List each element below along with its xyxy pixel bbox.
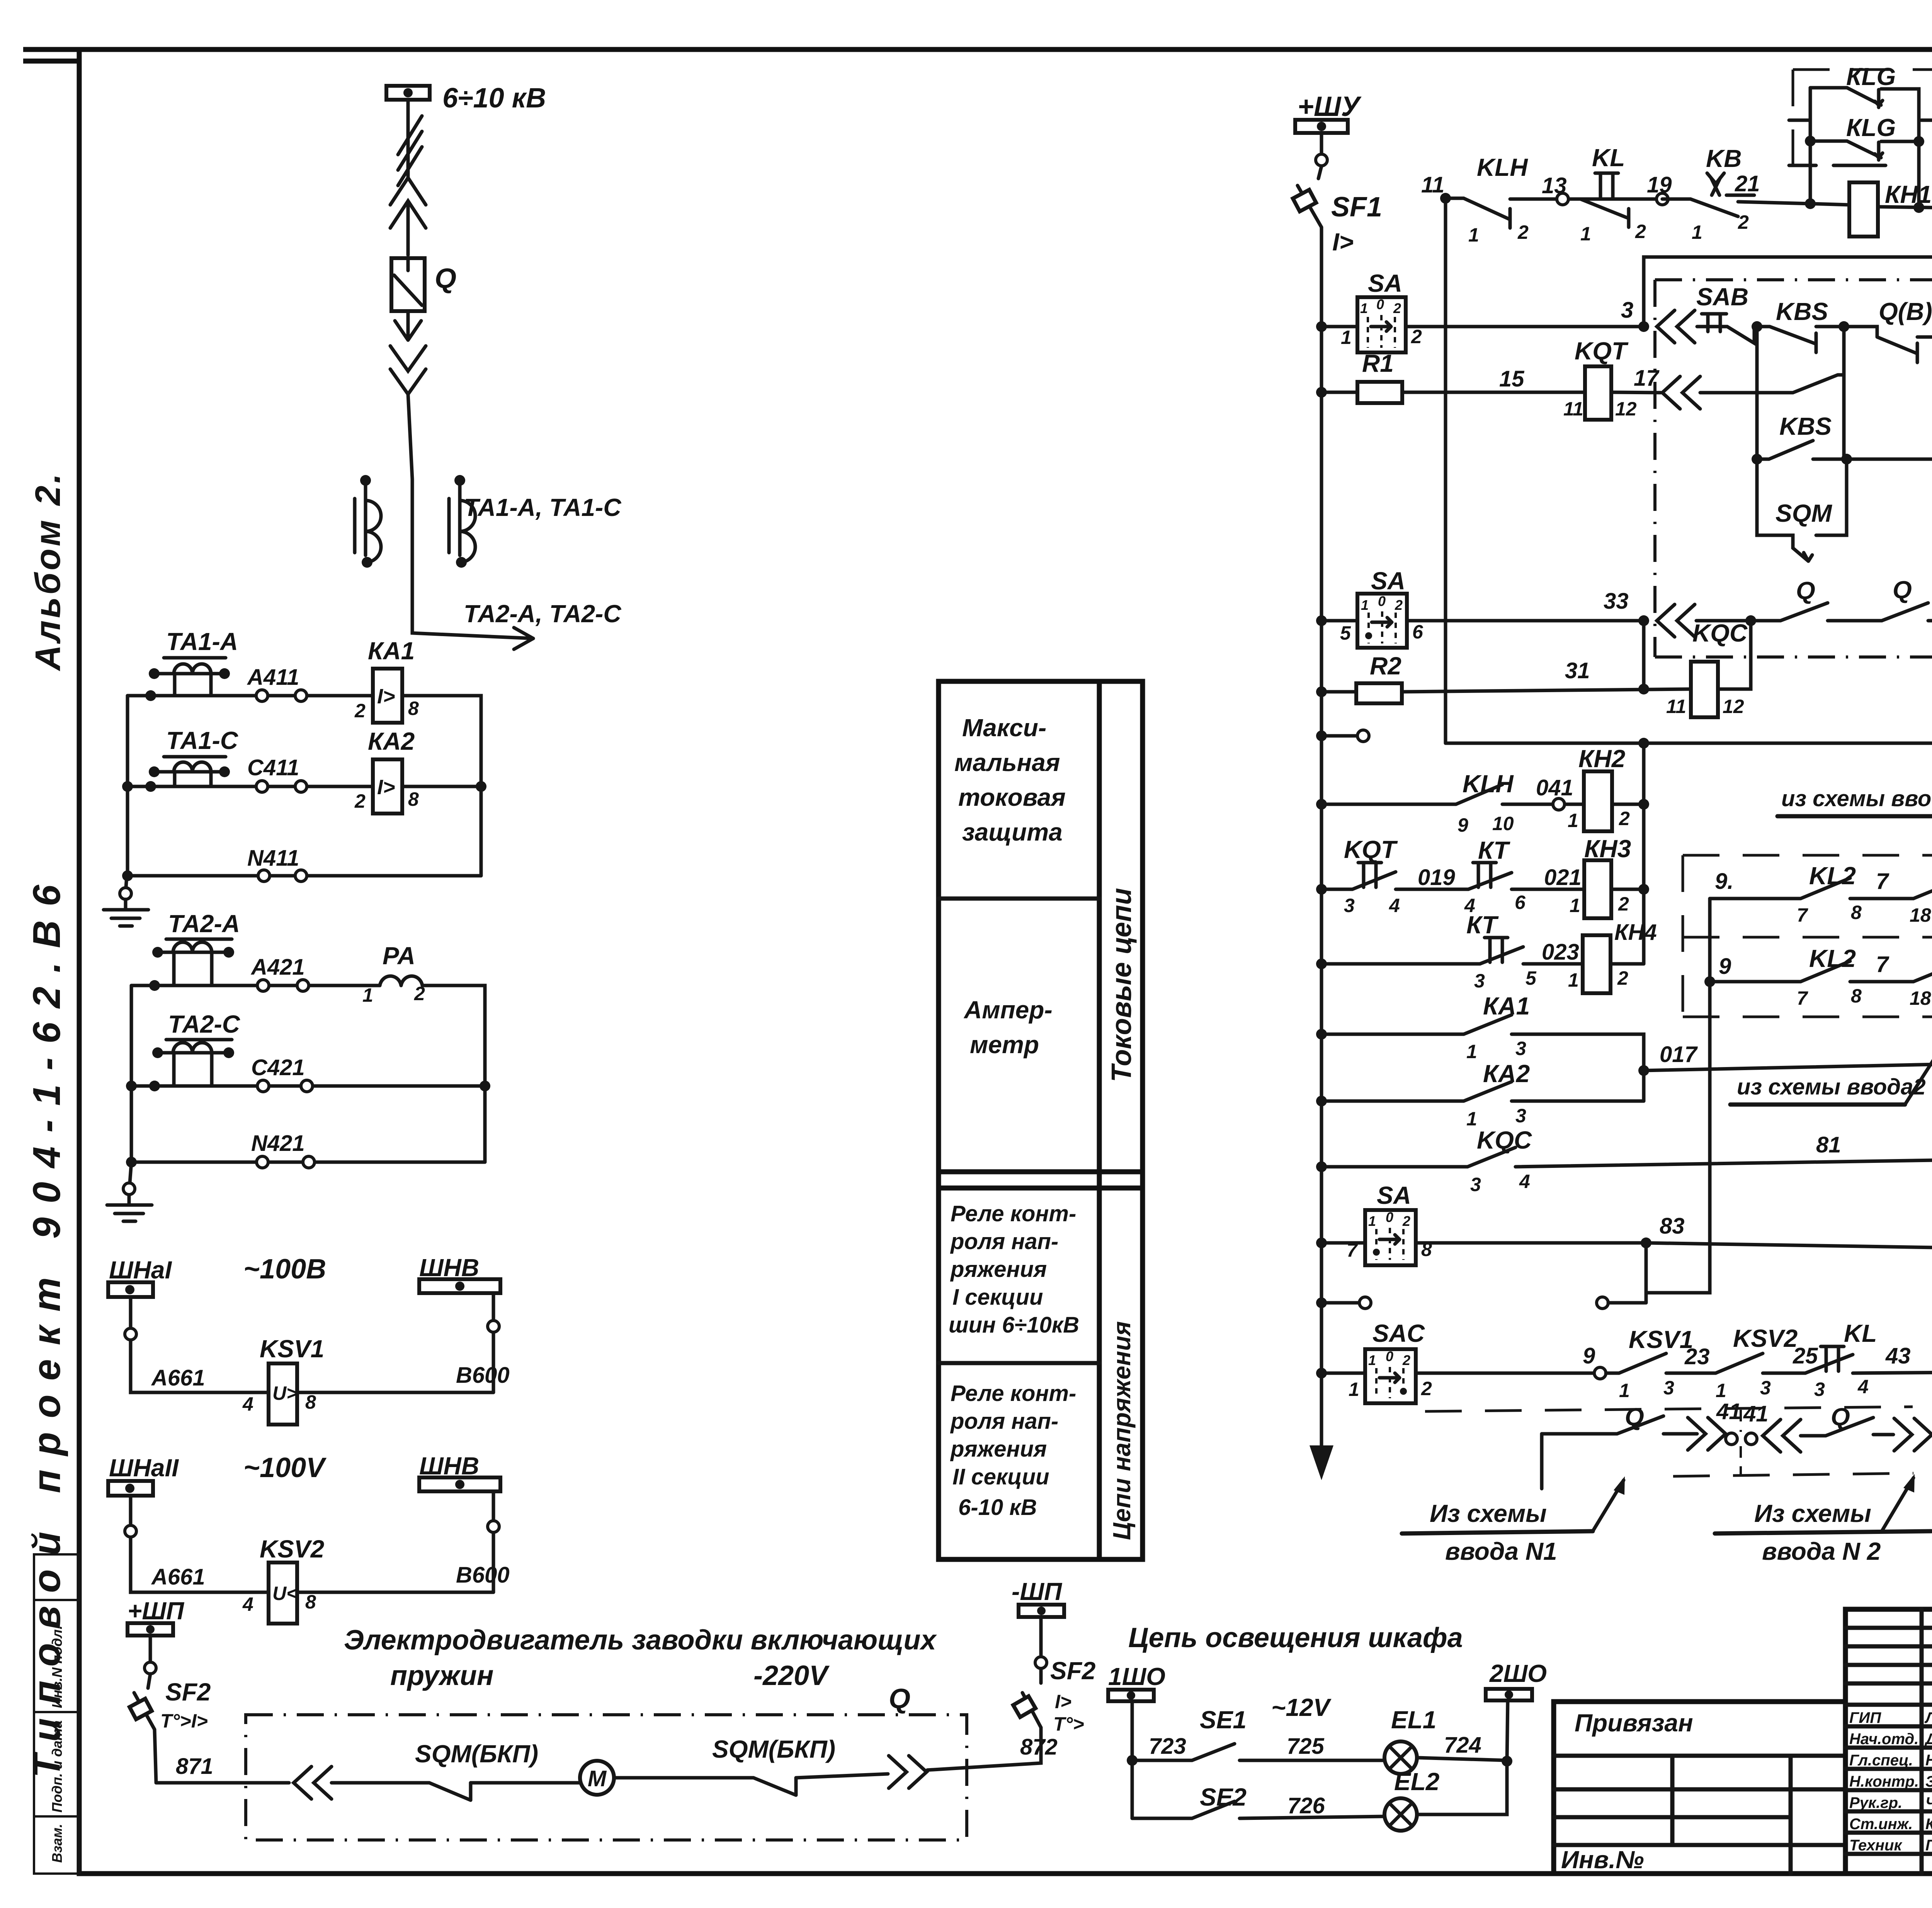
svg-text:SA: SA [1377, 1181, 1411, 1209]
svg-text:KSV2: KSV2 [1733, 1324, 1798, 1352]
coil KQT [1563, 337, 1661, 420]
svg-text:11: 11 [1666, 696, 1686, 717]
svg-text:6-10 кВ: 6-10 кВ [958, 1495, 1037, 1520]
text iz shemy vvoda N1 bottom [1402, 1476, 1625, 1565]
KH return vertical [1642, 743, 1646, 964]
contact SQM(BKP) 2 [712, 1735, 888, 1795]
svg-text:SA: SA [1371, 567, 1405, 595]
svg-text:0: 0 [1386, 1348, 1393, 1364]
svg-text:KSV1: KSV1 [1629, 1326, 1693, 1353]
svg-text:7: 7 [1797, 987, 1808, 1009]
svg-text:Взам.: Взам. [49, 1824, 65, 1863]
svg-text:Гл.спец.: Гл.спец. [1849, 1752, 1913, 1769]
svg-text:Золотарева: Золотарева [1925, 1773, 1932, 1790]
svg-text:ТА1-А, ТА1-С: ТА1-А, ТА1-С [464, 494, 621, 521]
svg-text:Цепи напряжения: Цепи напряжения [1108, 1321, 1136, 1540]
83 node drop to vvod bracket [1597, 982, 1710, 1309]
dash-dot breaker Q boundary [1655, 246, 1932, 657]
rung KA2 [1316, 1060, 1644, 1130]
svg-text:8: 8 [305, 1391, 316, 1413]
cable mark [398, 100, 422, 186]
svg-text:KQC: KQC [1692, 619, 1748, 647]
svg-text:Q: Q [1893, 576, 1912, 604]
wire C411 [128, 755, 373, 792]
svg-text:8: 8 [1851, 902, 1862, 923]
svg-text:2: 2 [1619, 808, 1630, 829]
bus +ShP [128, 1597, 185, 1674]
svg-text:9: 9 [1719, 954, 1731, 979]
svg-text:SF2: SF2 [165, 1678, 211, 1706]
svg-text:Чапны: Чапны [1925, 1794, 1932, 1811]
+ShU bottom arrow [1310, 1445, 1333, 1480]
relay KH1 [1644, 180, 1932, 327]
svg-text:Привязан: Привязан [1575, 1709, 1693, 1737]
rung a: SA switch 1-2 [1316, 269, 1644, 352]
svg-text:КТ: КТ [1478, 836, 1510, 864]
svg-text:10: 10 [1492, 813, 1514, 834]
svg-text:1: 1 [1360, 300, 1368, 316]
svg-text:8: 8 [1851, 985, 1862, 1007]
svg-text:0: 0 [1378, 593, 1386, 609]
svg-text:ШНаI: ШНаI [109, 1256, 172, 1284]
arrows >> avr [1688, 1418, 1726, 1450]
svg-text:токовая: токовая [958, 783, 1066, 811]
arrows >> motor [889, 1756, 927, 1788]
svg-text:Техник: Техник [1849, 1837, 1902, 1854]
svg-text:KBS: KBS [1776, 298, 1828, 325]
svg-text:83: 83 [1660, 1214, 1685, 1239]
svg-text:3: 3 [1515, 1105, 1526, 1127]
single-line CT TA1 [355, 475, 621, 568]
relay KA1 [354, 637, 481, 876]
svg-text:41: 41 [1743, 1401, 1769, 1426]
svg-text:из схемы ввода N1: из схемы ввода N1 [1781, 786, 1932, 811]
bus 6-10 kV [386, 83, 546, 114]
wire B600 up to ShNV2 [456, 1491, 510, 1592]
svg-text:ТА1-А: ТА1-А [166, 628, 238, 655]
bus +ShU [1295, 91, 1362, 166]
contact SQM 2 [1700, 327, 1844, 459]
svg-text:ТА2-А: ТА2-А [168, 910, 240, 938]
svg-text:5: 5 [1526, 967, 1537, 989]
svg-text:KSV1: KSV1 [260, 1335, 324, 1363]
svg-text:М: М [588, 1766, 607, 1791]
svg-text:КН4: КН4 [1614, 920, 1657, 945]
svg-text:SQM: SQM [1776, 499, 1832, 527]
svg-text:ввода N 2: ввода N 2 [1762, 1537, 1881, 1565]
svg-text:3: 3 [1663, 1377, 1674, 1399]
svg-text:3: 3 [1470, 1174, 1481, 1195]
svg-text:КLG: КLG [1846, 63, 1896, 90]
arrows << rung a [1657, 310, 1695, 343]
svg-text:021: 021 [1544, 865, 1582, 890]
svg-text:EL2: EL2 [1394, 1768, 1439, 1796]
svg-text:EL1: EL1 [1391, 1706, 1436, 1734]
wire 017 to KT coil [1638, 1042, 1932, 1076]
svg-text:KQC: KQC [1477, 1126, 1532, 1154]
svg-text:12: 12 [1723, 696, 1744, 717]
breaker SF2 [129, 1674, 211, 1783]
wire 21 [1726, 171, 1760, 233]
svg-text:21: 21 [1735, 171, 1760, 196]
svg-text:из схемы ввода2: из схемы ввода2 [1737, 1074, 1926, 1100]
svg-text:1: 1 [1349, 1379, 1359, 1400]
svg-text:2: 2 [1517, 221, 1529, 243]
branch SE2 [1132, 1760, 1384, 1818]
contact Q(B) [1844, 298, 1932, 363]
svg-text:33: 33 [1604, 589, 1629, 614]
svg-text:Q: Q [435, 263, 456, 294]
svg-text:I>: I> [1055, 1691, 1071, 1712]
19 terminal [1647, 172, 1672, 205]
ground 2 [107, 1162, 152, 1221]
svg-text:0: 0 [1386, 1209, 1393, 1225]
svg-text:I секции: I секции [952, 1285, 1043, 1310]
ground 1 [104, 876, 148, 926]
breaker Q [391, 258, 456, 311]
node 11 top [1421, 172, 1451, 743]
svg-text:KL2: KL2 [1809, 862, 1856, 890]
svg-text:SA: SA [1368, 269, 1402, 297]
svg-text:Токовые цепи: Токовые цепи [1106, 888, 1137, 1083]
svg-text:4: 4 [242, 1393, 253, 1415]
svg-text:KL: KL [1844, 1319, 1877, 1347]
svg-text:3: 3 [1760, 1377, 1771, 1399]
chevrons up [390, 178, 426, 255]
svg-text:KB: KB [1706, 145, 1742, 172]
svg-text:KQT: KQT [1575, 337, 1629, 365]
svg-text:роля нап-: роля нап- [950, 1229, 1058, 1254]
svg-text:~100В: ~100В [243, 1254, 326, 1285]
svg-text:12: 12 [1615, 398, 1637, 420]
svg-text:1: 1 [1368, 1352, 1376, 1368]
arrows << motor [294, 1767, 332, 1799]
KLG dashed box [1789, 70, 1932, 172]
rung SA3 - 83 - KQ2 coil [1316, 1181, 1646, 1265]
wire A421 [131, 955, 380, 991]
svg-text:В600: В600 [456, 1363, 510, 1388]
13 terminal [1542, 173, 1568, 205]
svg-text:Из схемы: Из схемы [1430, 1500, 1547, 1527]
svg-text:ТА2-А, ТА2-С: ТА2-А, ТА2-С [464, 600, 621, 628]
coil KQC [1666, 615, 1756, 717]
svg-text:1: 1 [1466, 1108, 1477, 1130]
svg-text:I>: I> [377, 685, 395, 708]
rung KA1 [1316, 992, 1644, 1101]
rung A: KB contact [1662, 145, 1810, 243]
svg-text:ввода N1: ввода N1 [1445, 1537, 1557, 1565]
svg-text:Электродвигатель заводки вкл: Электродвигатель заводки включающих [344, 1625, 937, 1656]
SQM callout bubble [1757, 459, 1847, 561]
svg-text:Т°>: Т°> [1053, 1713, 1084, 1735]
svg-text:3: 3 [1474, 970, 1485, 992]
svg-text:А661: А661 [151, 1365, 205, 1391]
margin stamp boxes [34, 1554, 79, 1874]
svg-text:ГИП: ГИП [1849, 1709, 1881, 1726]
rung KQT2-019-KT-021-KH3 [1316, 836, 1468, 916]
svg-text:Q(В): Q(В) [1879, 298, 1932, 325]
svg-text:81: 81 [1816, 1132, 1841, 1157]
svg-text:9: 9 [1458, 814, 1468, 836]
svg-text:ТА1-С: ТА1-С [166, 727, 238, 754]
rung R1-KQT: resistor R1 [1316, 349, 1585, 403]
left bus TA2 group [126, 985, 137, 1162]
node 83 [1641, 1214, 1932, 1249]
rung A: KL contact [1580, 144, 1646, 245]
wire 871 [156, 1754, 289, 1783]
svg-text:Типовой проект 904-1-62.В6: Типовой проект 904-1-62.В6 [25, 871, 68, 1778]
motor circuit caption [344, 1625, 937, 1691]
text iz shemy vvoda 2 [1730, 1023, 1932, 1105]
svg-text:724: 724 [1444, 1733, 1481, 1758]
svg-text:Нашельский: Нашельский [1925, 1752, 1932, 1769]
svg-text:9: 9 [1583, 1343, 1595, 1368]
svg-text:4: 4 [1519, 1171, 1530, 1192]
svg-text:6÷10 кВ: 6÷10 кВ [442, 83, 546, 114]
arrows << KQT rung [1662, 376, 1700, 409]
svg-text:KSV2: KSV2 [260, 1535, 324, 1563]
wire A661 to KSV1 [125, 1297, 269, 1392]
svg-text:872: 872 [1020, 1734, 1058, 1760]
svg-text:КА2: КА2 [368, 727, 415, 755]
rung R2-KQC: resistor R2 [1316, 652, 1691, 703]
contact KSV2 [1716, 1324, 1818, 1401]
vvod rung 1 [1710, 856, 1932, 926]
svg-text:N421: N421 [251, 1131, 305, 1156]
left bus TA1 group [122, 696, 133, 876]
svg-text:N411: N411 [247, 846, 299, 871]
bus -ShP [1012, 1578, 1064, 1656]
svg-text:6: 6 [1412, 621, 1423, 643]
svg-text:R2: R2 [1370, 652, 1401, 680]
vvod rung 2 [1704, 899, 1932, 1009]
svg-text:3: 3 [1621, 298, 1633, 323]
contact Q avr2 [1801, 1403, 1893, 1436]
vertical 33-31 link [1638, 621, 1649, 694]
node 33 [1604, 589, 1649, 626]
wire B600 up to ShNV [456, 1293, 510, 1392]
svg-text:4: 4 [242, 1593, 253, 1615]
wire 872 [927, 1728, 1058, 1770]
svg-text:ряжения: ряжения [950, 1257, 1047, 1282]
arrows << avr [1763, 1420, 1801, 1452]
rung SAC - KSV - KL - 43 [1316, 1319, 1594, 1403]
svg-text:+ШУ: +ШУ [1298, 91, 1362, 122]
svg-text:Кравцова: Кравцова [1925, 1816, 1932, 1833]
svg-text:SE1: SE1 [1200, 1706, 1247, 1734]
svg-text:2ШО: 2ШО [1489, 1660, 1547, 1687]
svg-text:ШНаII: ШНаII [109, 1454, 179, 1482]
open stub 2 [1316, 1297, 1371, 1309]
svg-text:U>: U> [272, 1382, 298, 1404]
svg-text:Т°>I>: Т°>I> [160, 1710, 208, 1732]
svg-text:2: 2 [1635, 221, 1646, 242]
svg-text:SQM(БКП): SQM(БКП) [712, 1735, 835, 1763]
svg-text:Альбом 2.: Альбом 2. [28, 471, 68, 671]
wire A411 [128, 665, 373, 701]
wire A661 to KSV2 [125, 1496, 269, 1592]
svg-text:метр: метр [970, 1031, 1039, 1059]
svg-text:2: 2 [354, 700, 366, 722]
svg-text:1ШО: 1ШО [1108, 1663, 1165, 1690]
svg-text:KLH: KLH [1477, 153, 1528, 181]
svg-text:Нач.отд.: Нач.отд. [1849, 1731, 1918, 1748]
bus 2ShO [1486, 1660, 1547, 1761]
svg-text:КН1: КН1 [1885, 180, 1932, 208]
contact Q b [1882, 576, 1932, 621]
svg-text:Из схемы: Из схемы [1754, 1500, 1871, 1527]
svg-text:Горетка: Горетка [1925, 1837, 1932, 1854]
svg-text:1: 1 [1568, 969, 1579, 991]
left margin vertical title: Типовой проект 904-1-62 В6 Альбом 2. [25, 471, 68, 1778]
svg-text:А411: А411 [247, 665, 299, 690]
dash-dot enclosure Q (motor) [246, 1683, 967, 1840]
svg-text:шин 6÷10кВ: шин 6÷10кВ [949, 1312, 1079, 1338]
svg-text:2: 2 [1618, 893, 1629, 915]
svg-text:5: 5 [1340, 622, 1351, 644]
svg-text:726: 726 [1287, 1793, 1325, 1818]
svg-text:18: 18 [1910, 987, 1931, 1009]
svg-text:+ШП: +ШП [128, 1597, 185, 1625]
svg-text:7: 7 [1876, 869, 1889, 894]
svg-text:Макси-: Макси- [962, 714, 1046, 742]
svg-text:-ШП: -ШП [1012, 1578, 1063, 1605]
svg-text:1: 1 [1568, 810, 1578, 831]
svg-text:017: 017 [1660, 1042, 1698, 1067]
svg-text:Леонов: Леонов [1924, 1709, 1932, 1726]
wire 723 / contact SE1 [1132, 1706, 1384, 1760]
ammeter PA coil [362, 942, 485, 1162]
svg-text:SAB: SAB [1696, 283, 1748, 311]
svg-text:2: 2 [1402, 1213, 1410, 1229]
svg-text:Цепь освещения шкафа: Цепь освещения шкафа [1128, 1622, 1463, 1653]
rung KBS2-KBS coil [1752, 327, 1932, 465]
svg-text:8: 8 [408, 698, 419, 719]
svg-text:8: 8 [408, 788, 419, 810]
svg-text:1: 1 [1468, 224, 1479, 246]
svg-text:8: 8 [305, 1591, 316, 1613]
open stub 1 [1316, 730, 1369, 742]
svg-text:КН2: КН2 [1578, 745, 1625, 773]
svg-text:1: 1 [1341, 327, 1352, 348]
svg-text:А421: А421 [250, 955, 305, 980]
svg-text:мальная: мальная [954, 749, 1060, 776]
svg-text:Инв.№: Инв.№ [1561, 1846, 1644, 1874]
coil KH4 [1568, 920, 1657, 993]
svg-text:SF1: SF1 [1331, 192, 1382, 223]
relay KA2 [354, 727, 486, 814]
lamp EL1 [1384, 1706, 1512, 1774]
svg-text:9.: 9. [1715, 869, 1733, 894]
svg-text:041: 041 [1536, 775, 1573, 800]
arrow down + chevrons [390, 311, 533, 649]
svg-text:1: 1 [1716, 1380, 1726, 1401]
coil KH3 [1570, 835, 1649, 918]
svg-text:Ст.инж.: Ст.инж. [1849, 1816, 1913, 1833]
bus ShNaI [108, 1254, 326, 1297]
svg-text:1: 1 [1466, 1041, 1477, 1062]
svg-text:6: 6 [1515, 892, 1526, 913]
svg-text:23: 23 [1684, 1344, 1710, 1369]
svg-text:1: 1 [362, 984, 373, 1006]
contact SQM(BKP) 1 [332, 1740, 580, 1800]
contact SAB [1696, 283, 1757, 343]
svg-text:2: 2 [1738, 211, 1749, 233]
svg-text:SQM(БКП): SQM(БКП) [415, 1740, 538, 1768]
terminals 41 41 [1716, 1399, 1769, 1476]
lamp EL2 [1384, 1761, 1507, 1831]
arrows << rung 33 [1657, 604, 1695, 637]
wire N421 [126, 1131, 485, 1168]
svg-text:~12V: ~12V [1271, 1694, 1332, 1721]
privyazan box [1554, 1702, 1845, 1874]
svg-text:ряжения: ряжения [950, 1437, 1047, 1462]
svg-text:4: 4 [1389, 895, 1400, 916]
single-line CT TA2 [449, 475, 621, 628]
svg-text:KL: KL [1592, 144, 1625, 172]
svg-text:роля нап-: роля нап- [950, 1409, 1058, 1434]
svg-text:КТ: КТ [1466, 911, 1499, 939]
svg-text:U<: U< [272, 1583, 298, 1604]
svg-text:7: 7 [1876, 952, 1889, 977]
svg-text:41: 41 [1716, 1399, 1742, 1424]
svg-text:15: 15 [1499, 366, 1524, 391]
text iz shemy vvoda N2 bottom [1715, 1474, 1931, 1565]
svg-text:В600: В600 [456, 1562, 510, 1588]
coil KH2 [1568, 745, 1649, 831]
svg-text:723: 723 [1149, 1734, 1186, 1759]
svg-text:Рук.гр.: Рук.гр. [1849, 1794, 1902, 1811]
svg-text:II секции: II секции [952, 1464, 1049, 1489]
svg-text:43: 43 [1885, 1343, 1911, 1368]
rung 33: SA switch 5-6 [1316, 567, 1644, 648]
svg-text:защита: защита [962, 818, 1063, 846]
svg-text:SAC: SAC [1372, 1319, 1425, 1347]
svg-text:725: 725 [1287, 1734, 1325, 1759]
terminal 9 and KSV1 contact [1583, 1326, 1716, 1401]
svg-text:I>: I> [377, 776, 395, 799]
svg-text:KLH: KLH [1463, 770, 1514, 798]
svg-text:1: 1 [1570, 895, 1580, 916]
contact KL with plunger [1805, 1319, 1932, 1400]
svg-text:2: 2 [1402, 1352, 1410, 1368]
svg-text:1: 1 [1580, 223, 1591, 245]
svg-text:Реле конт-: Реле конт- [951, 1381, 1076, 1406]
relay KSV1 [242, 1335, 493, 1425]
rung KQC contact - 81 - KQ coil [1316, 1126, 1932, 1195]
svg-text:1: 1 [1361, 597, 1369, 613]
svg-text:Q: Q [889, 1683, 910, 1714]
svg-text:РА: РА [383, 942, 415, 970]
rung KLH2-041-KH2 [1316, 770, 1584, 836]
breaker SF1 [1293, 166, 1382, 1457]
svg-text:I>: I> [1332, 228, 1354, 256]
svg-text:С421: С421 [251, 1055, 305, 1080]
contact Q a [1696, 577, 1882, 621]
CT TA1-C [149, 727, 238, 786]
breaker SF2-2 [1013, 1657, 1095, 1735]
svg-text:KBS: KBS [1779, 412, 1832, 440]
svg-text:3: 3 [1515, 1038, 1526, 1059]
svg-text:17: 17 [1634, 366, 1660, 391]
svg-text:~100V: ~100V [243, 1452, 327, 1483]
KLG contact 2 [1805, 114, 1924, 160]
main title block box [1845, 1609, 1932, 1874]
svg-text:С411: С411 [247, 755, 299, 780]
CT TA2-A [152, 910, 240, 985]
svg-text:7: 7 [1797, 904, 1808, 926]
motor M [580, 1761, 753, 1795]
